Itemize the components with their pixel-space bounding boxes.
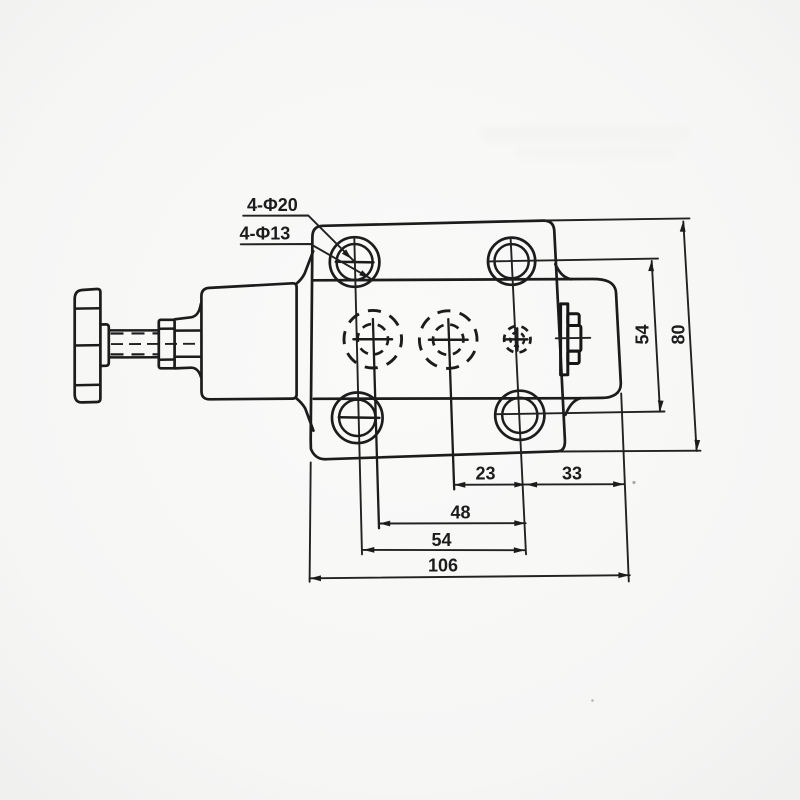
hole TL/BL vertical center line: [354, 237, 362, 554]
knob grip lines: [75, 308, 100, 385]
bolt hole top-right outer: [488, 238, 535, 285]
knob hub: [100, 324, 108, 366]
bolt hole bottom-left inner: [339, 400, 375, 436]
center axis dashed line: [111, 343, 201, 345]
port P1 vertical center line: [373, 319, 379, 528]
port P2 vertical center line: [448, 319, 454, 489]
port P1 horizontal slash: [354, 338, 393, 341]
svg-text:4-Φ13: 4-Φ13: [240, 224, 291, 244]
body-plate fillet top right: [555, 264, 571, 279]
hole TL horizontal slash: [336, 261, 374, 264]
extension line from TR hole center: [489, 259, 658, 262]
neck from cap to plate (top): [297, 251, 313, 283]
knob (hand wheel): [75, 289, 101, 402]
svg-text:23: 23: [476, 464, 496, 484]
bolt hole bottom-right outer: [495, 391, 544, 440]
port P3 vertical bar: [516, 328, 519, 350]
cone transition to spring cap (bottom): [175, 368, 201, 377]
hole TR/BR vertical center line: [511, 238, 526, 555]
dim line 54 bottom: [363, 549, 525, 551]
side plug axis line: [556, 337, 591, 340]
port P3 inner dashed circle: [510, 332, 524, 346]
side plug hex top band: [568, 314, 579, 326]
extension from body right edge: [621, 394, 629, 582]
cone transition to spring cap (top): [175, 304, 201, 320]
body bottom edge: [314, 397, 581, 400]
dim line 106: [310, 575, 630, 578]
svg-text:4-Φ20: 4-Φ20: [247, 195, 298, 215]
port P2 inner dashed circle: [433, 324, 463, 354]
dim line 54 right: [652, 261, 660, 412]
port P2 outer dashed circle: [419, 311, 477, 369]
tiny paper speck: [591, 699, 594, 702]
tiny speck near 33 arrow: [632, 481, 635, 484]
svg-text:54: 54: [432, 530, 452, 550]
side plug hex bottom band: [568, 351, 579, 363]
rod segment between nut and cap: [175, 331, 202, 357]
dim line 48: [379, 522, 526, 524]
svg-text:54: 54: [633, 324, 653, 344]
dim line 23-33: [454, 483, 625, 486]
svg-text:33: 33: [562, 464, 582, 484]
bolt hole bottom-right inner: [502, 398, 537, 433]
body-plate fillet bottom right: [565, 398, 581, 415]
bolt hole top-left outer: [330, 237, 380, 287]
svg-text:80: 80: [669, 324, 689, 344]
lock nut: [159, 320, 175, 369]
mounting plate outline: [311, 221, 565, 460]
bolt hole top-left inner: [337, 244, 373, 280]
extension of plate top edge: [546, 218, 690, 220]
svg-text:106: 106: [428, 556, 458, 576]
faint watermark smudge: [480, 126, 690, 159]
neck from cap to plate (bottom): [297, 399, 314, 431]
extension of plate bottom edge: [560, 450, 701, 453]
bolt hole top-right inner: [495, 244, 529, 278]
svg-text:48: 48: [451, 503, 471, 523]
port P3 horizontal slash: [506, 338, 528, 341]
port P3 outer dashed circle: [504, 326, 530, 352]
rod thread dashed lines: [111, 333, 159, 354]
dim line 80: [683, 222, 696, 452]
port P1 outer dashed circle: [344, 310, 402, 368]
extension line from BR hole center: [497, 412, 665, 415]
hole BL horizontal slash: [339, 416, 380, 419]
spring cap (bell housing): [201, 283, 296, 399]
extension from plate bottom-left corner: [310, 463, 311, 582]
leader line for 4-PHI13: [241, 244, 372, 279]
body top edge: [314, 279, 621, 398]
bolt hole bottom-left outer: [332, 393, 383, 444]
leader line for 4-PHI20: [243, 216, 354, 262]
adjusting screw rod: [109, 330, 159, 357]
side plug flange strip: [561, 304, 568, 375]
port P1 inner dashed circle: [358, 324, 388, 354]
port P2 horizontal slash: [429, 338, 468, 341]
side plug hex middle band: [568, 326, 581, 352]
